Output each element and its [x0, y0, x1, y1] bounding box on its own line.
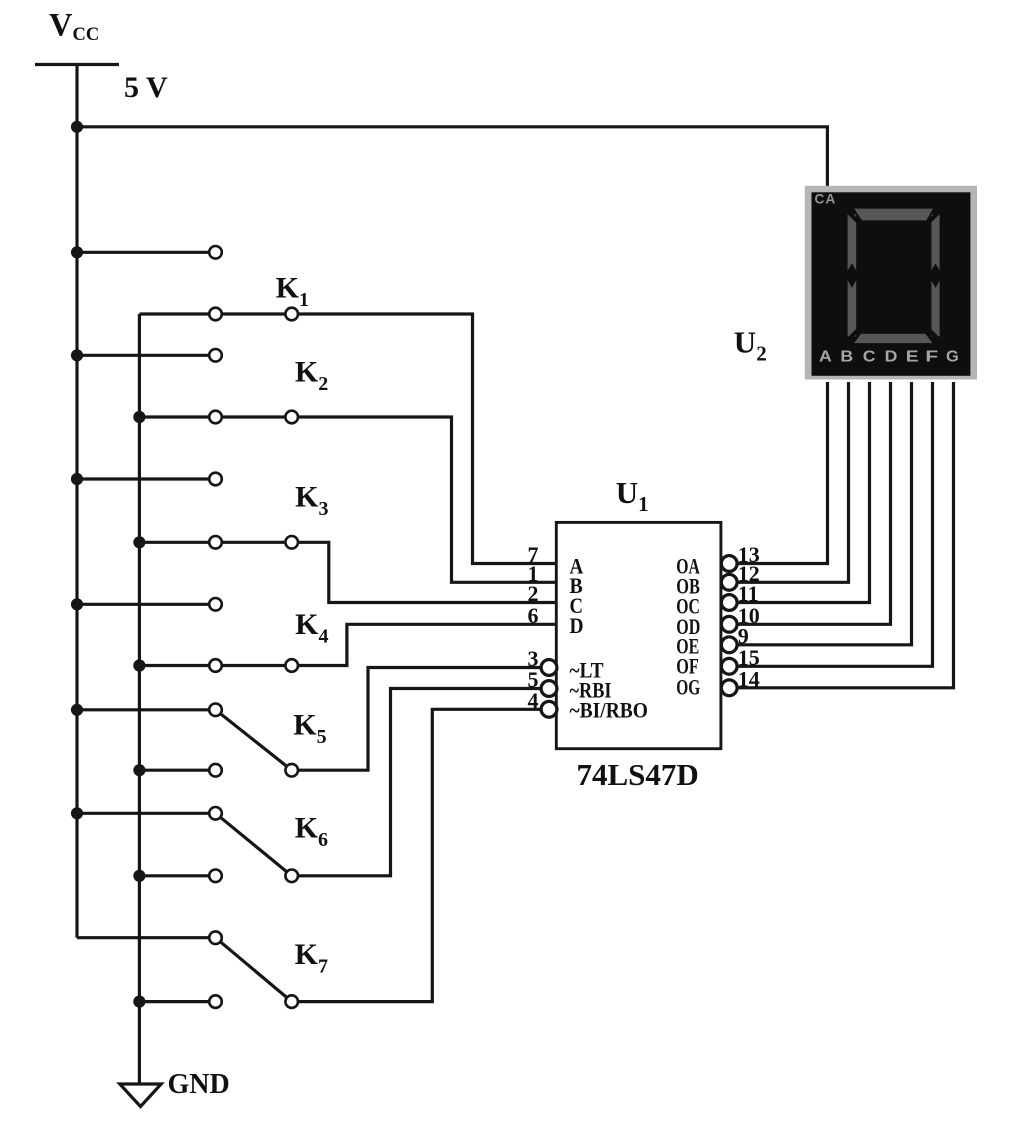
junction bus2 / K4 row — [133, 659, 145, 671]
wire K1 row to U1 pin A — [139, 314, 556, 564]
wire K5 common to U1 ~LT — [292, 668, 542, 771]
pin bubble U1 OF — [721, 658, 737, 674]
svg-text:F: F — [925, 349, 938, 366]
wire K7 common to U1 ~BI/RBO — [292, 709, 542, 1001]
contact K7 upper throw — [209, 931, 222, 944]
wire stub K3 upper throw — [77, 477, 216, 480]
wire bus2 GND vertical — [138, 314, 141, 1084]
contact K4 upper throw — [209, 598, 222, 611]
junction bus1 / CA wire — [71, 121, 83, 133]
pin bubble U1 ~RBI — [541, 681, 557, 697]
bevel D/E — [844, 329, 859, 344]
bevel D/C — [928, 329, 943, 344]
pin bubble U1 OD — [721, 616, 737, 632]
segment A — [854, 209, 933, 221]
contact K5 lower throw — [209, 764, 222, 777]
display U2 black face — [812, 192, 971, 375]
svg-text:GND: GND — [168, 1069, 230, 1100]
wire K6 lower throw stub from bus2 — [139, 874, 215, 877]
svg-text:CA: CA — [815, 191, 837, 206]
svg-text:D: D — [570, 613, 584, 638]
junction bus1 / K4 upper stub — [71, 598, 83, 610]
contact K3 common — [285, 536, 298, 549]
wire U1 pin 9 OE to display E — [737, 382, 911, 645]
junction bus1 / K6 upper stub — [71, 807, 83, 819]
segment D — [854, 334, 932, 343]
notch B/C — [928, 263, 942, 288]
wire stub K1 upper throw — [77, 251, 216, 254]
notch F/E — [845, 263, 859, 288]
contact K3 upper throw — [209, 473, 222, 486]
svg-text:G: G — [946, 349, 959, 366]
svg-text:5 V: 5 V — [124, 71, 168, 104]
wire U1 pin 15 OF to display F — [737, 382, 932, 666]
wire K2 row to U1 pin B — [139, 417, 556, 582]
svg-text:D: D — [885, 349, 898, 366]
wire U1 pin 14 OG to display G — [737, 382, 953, 688]
svg-text:14: 14 — [738, 666, 760, 691]
junction bus2 / K6 lower stub — [133, 870, 145, 882]
switch K6 lever — [216, 813, 292, 876]
contact K5 common — [285, 764, 298, 777]
wire K6 upper throw from bus1 — [77, 812, 216, 815]
wire U1 pin 12 OB to display B — [737, 382, 848, 582]
power VCC bar — [35, 63, 119, 66]
contact K2 lower throw — [209, 411, 222, 424]
wire stub K2 upper throw — [77, 354, 216, 357]
pin bubble U1 ~LT — [541, 660, 557, 676]
wire U1 pin 10 OD to display D — [737, 382, 890, 624]
pin bubble U1 ~BI/RBO — [541, 701, 557, 717]
wire stub K4 upper throw — [77, 603, 216, 606]
switch K5 lever — [216, 710, 292, 770]
contact K4 common — [285, 659, 298, 672]
svg-text:A: A — [819, 349, 832, 366]
pin bubble U1 OE — [721, 637, 737, 653]
contact K6 common — [285, 870, 298, 883]
pin bubble U1 OA — [721, 556, 737, 572]
junction bus2 / K7 lower stub — [133, 996, 145, 1008]
pin bubble U1 OG — [721, 680, 737, 696]
contact K7 lower throw — [209, 995, 222, 1008]
wire K7 lower throw stub from bus2 — [139, 1000, 215, 1003]
contact K1 upper throw — [209, 246, 222, 259]
segment B — [931, 215, 939, 276]
contact K6 upper throw — [209, 807, 222, 820]
segment E — [848, 276, 857, 337]
contact K6 lower throw — [209, 870, 222, 883]
segment C — [931, 276, 939, 337]
svg-text:C: C — [863, 349, 876, 366]
contact K4 lower throw — [209, 659, 222, 672]
pin bubble U1 OC — [721, 595, 737, 611]
wire U1 pin 11 OC to display C — [737, 382, 869, 603]
junction bus1 / K1 upper stub — [71, 246, 83, 258]
contact K7 common — [285, 995, 298, 1008]
svg-text:6: 6 — [528, 603, 539, 628]
wire VCC to display CA pin — [77, 127, 827, 190]
wire K3 row to U1 pin C — [139, 542, 556, 602]
IC U1 74LS47D body — [556, 522, 721, 748]
junction bus1 / K5 upper stub — [71, 704, 83, 716]
contact K2 upper throw — [209, 349, 222, 362]
junction bus1 / K3 upper stub — [71, 473, 83, 485]
wire K5 lower throw stub from bus2 — [139, 769, 215, 772]
junction bus2 / K2 row — [133, 411, 145, 423]
bevel A/B — [928, 208, 943, 223]
contact K1 lower throw — [209, 308, 222, 321]
contact K2 common — [285, 411, 298, 424]
pin bubble U1 OB — [721, 574, 737, 590]
switch K7 lever — [216, 938, 292, 1002]
bevel A/F — [844, 208, 859, 223]
junction bus2 / K3 row — [133, 536, 145, 548]
segment F — [848, 215, 857, 276]
junction bus1 / K2 upper stub — [71, 349, 83, 361]
wire bus1 VCC vertical — [75, 65, 78, 938]
contact K5 upper throw — [209, 704, 222, 717]
contact K1 common — [285, 308, 298, 321]
svg-text:~BI/RBO: ~BI/RBO — [570, 698, 649, 723]
svg-text:B: B — [840, 349, 853, 366]
svg-text:E: E — [906, 349, 919, 366]
ground symbol — [120, 1084, 161, 1107]
wire K7 upper throw from bus1 — [77, 936, 216, 939]
display U2 frame — [805, 186, 977, 380]
svg-text:OG: OG — [676, 674, 700, 699]
wire K4 row to U1 pin D — [139, 624, 556, 665]
wire K6 common to U1 ~RBI — [292, 689, 542, 876]
contact K3 lower throw — [209, 536, 222, 549]
wire U1 pin 13 OA to display A — [737, 382, 827, 564]
junction bus2 / K5 lower stub — [133, 764, 145, 776]
svg-text:74LS47D: 74LS47D — [577, 757, 699, 792]
wire K5 upper throw from bus1 — [77, 708, 216, 711]
svg-text:4: 4 — [528, 688, 539, 713]
